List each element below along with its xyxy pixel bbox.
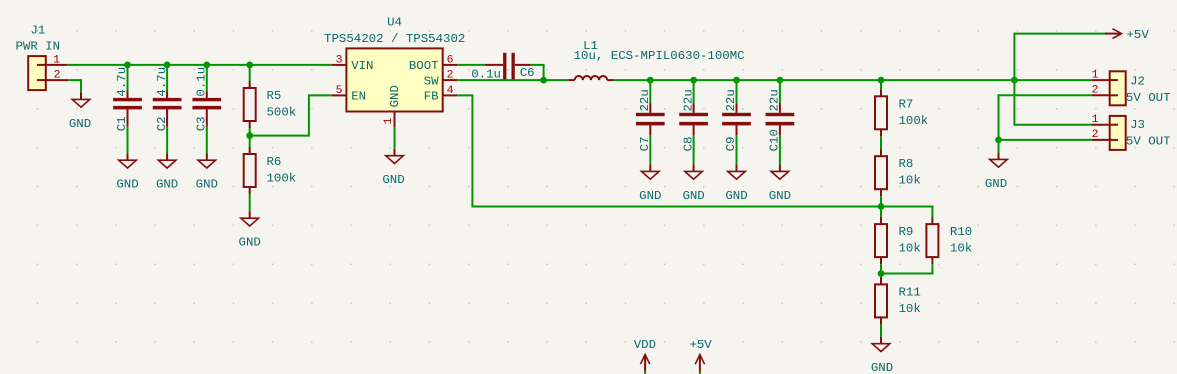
wire rail to C9 — [736, 80, 738, 113]
svg-text:GND: GND — [725, 189, 747, 203]
wire C3 to ground — [206, 109, 208, 153]
capacitor C7 22u — [636, 89, 665, 151]
svg-text:GND: GND — [196, 178, 218, 192]
ground GND at C9 — [725, 164, 747, 203]
wire rail to C8 — [693, 80, 695, 113]
svg-text:R11: R11 — [899, 285, 921, 299]
svg-text:VIN: VIN — [351, 59, 373, 73]
svg-text:22u: 22u — [681, 89, 695, 111]
resistor R11 10k — [875, 284, 921, 317]
svg-text:100k: 100k — [899, 114, 929, 128]
svg-text:2: 2 — [1092, 85, 1099, 97]
svg-text:1: 1 — [383, 118, 395, 125]
svg-text:R6: R6 — [267, 155, 282, 169]
wire R10 to bottom node — [881, 257, 932, 273]
wire to +5V symbol — [1014, 34, 1107, 81]
svg-text:4.7u: 4.7u — [115, 67, 129, 97]
resistor R5 500k — [244, 88, 297, 121]
ground GND at C3 — [196, 153, 218, 192]
junction output ground — [995, 137, 1002, 144]
wire C7 to ground — [649, 125, 651, 164]
svg-text:GND: GND — [116, 178, 138, 192]
svg-text:10u, ECS-MPIL0630-100MC: 10u, ECS-MPIL0630-100MC — [574, 49, 745, 63]
svg-text:1: 1 — [1092, 114, 1099, 126]
junction at R5 top — [246, 62, 253, 69]
wire junction to R6 — [249, 136, 251, 154]
junction at C9 top — [733, 77, 740, 84]
wire EN net — [250, 95, 332, 135]
capacitor C9 22u — [722, 89, 751, 151]
connector J2 5V OUT — [1092, 69, 1171, 105]
wire rail to C2 — [166, 65, 168, 98]
capacitor C3 0.1u — [192, 67, 221, 131]
wire R8 to FB node — [880, 189, 882, 206]
svg-text:10k: 10k — [899, 242, 921, 256]
wire rail to C1 — [127, 65, 129, 98]
wire J3 pin2 to ground node — [999, 139, 1093, 141]
wire +5V output rail — [614, 79, 1092, 81]
svg-text:22u: 22u — [768, 89, 782, 111]
svg-text:5V OUT: 5V OUT — [1126, 91, 1171, 105]
svg-text:GND: GND — [985, 177, 1007, 191]
svg-text:R9: R9 — [899, 225, 914, 239]
ground GND at R6 — [239, 211, 261, 250]
U4 pin 6 BOOT — [409, 54, 457, 73]
wire rail to R5 — [249, 65, 251, 88]
svg-text:6: 6 — [447, 54, 454, 66]
svg-text:22u: 22u — [724, 89, 738, 111]
junction at C10 top — [777, 77, 784, 84]
wire node to R11 — [880, 274, 882, 285]
junction R9/R11 — [878, 270, 885, 277]
ground GND at J1 — [69, 92, 91, 130]
wire rail to C7 — [649, 80, 651, 113]
wire VIN rail — [67, 64, 332, 66]
junction FB node — [878, 203, 885, 210]
connector J3 5V OUT — [1092, 114, 1171, 150]
U4 pin 4 FB — [424, 85, 457, 104]
svg-text:500k: 500k — [267, 106, 297, 120]
svg-text:10k: 10k — [950, 242, 972, 256]
svg-text:EN: EN — [351, 89, 366, 103]
op-amp U4 body — [346, 48, 442, 111]
svg-text:10k: 10k — [899, 302, 921, 316]
ground GND at C1 — [116, 153, 138, 192]
resistor R9 10k — [875, 224, 921, 257]
junction +5V tap — [1011, 77, 1018, 84]
svg-text:GND: GND — [388, 85, 402, 107]
ground GND at J2/J3 — [985, 140, 1007, 191]
capacitor C8 22u — [679, 89, 708, 151]
svg-text:VDD: VDD — [634, 338, 656, 352]
wire FB net — [457, 95, 932, 217]
capacitor C1 4.7u — [113, 67, 142, 131]
svg-text:GND: GND — [69, 117, 91, 131]
wire BOOT to C6 — [457, 64, 485, 66]
svg-text:GND: GND — [239, 236, 261, 250]
svg-text:2: 2 — [54, 70, 61, 82]
wire C2 to ground — [166, 109, 168, 153]
svg-text:FB: FB — [424, 89, 439, 103]
wire rail to C3 — [206, 65, 208, 98]
wire J1 pin2 to ground — [68, 80, 81, 92]
wire C6 to SW net — [531, 65, 544, 80]
svg-text:3: 3 — [336, 54, 343, 66]
svg-text:GND: GND — [639, 189, 661, 203]
svg-text:GND: GND — [769, 189, 791, 203]
ground GND at R11 — [871, 337, 893, 374]
svg-text:100k: 100k — [267, 172, 297, 186]
svg-text:+5V: +5V — [689, 338, 712, 352]
svg-text:10k: 10k — [899, 174, 921, 188]
connector J1 PWR IN — [16, 24, 69, 90]
svg-text:R8: R8 — [899, 157, 914, 171]
junction at C1 top — [124, 62, 131, 69]
junction R5/R6 — [246, 132, 253, 139]
svg-text:1: 1 — [1092, 69, 1099, 81]
wire C8 to ground — [693, 125, 695, 164]
ground GND at C7 — [639, 164, 661, 203]
wire R6 to ground — [249, 187, 251, 211]
svg-text:GND: GND — [156, 178, 178, 192]
junction at C3 top — [203, 62, 210, 69]
U4 reference label — [387, 15, 402, 29]
wire rail to R7 — [880, 80, 882, 96]
svg-text:C6: C6 — [520, 66, 535, 80]
ground GND at C8 — [682, 164, 704, 203]
svg-text:5: 5 — [336, 85, 343, 97]
wire rail to C10 — [779, 80, 781, 113]
power symbol +5V (bottom) — [689, 338, 712, 374]
junction at C7 top — [647, 77, 654, 84]
resistor R7 100k — [875, 96, 928, 129]
U4 pin 1 GND — [383, 85, 402, 127]
svg-text:0.1u: 0.1u — [195, 67, 209, 97]
U4 value label — [324, 32, 465, 46]
ground GND at U4 — [382, 127, 404, 187]
svg-text:GND: GND — [871, 361, 893, 374]
ground GND at C10 — [769, 164, 791, 203]
svg-text:R7: R7 — [899, 97, 914, 111]
svg-text:2: 2 — [447, 70, 454, 82]
svg-text:R5: R5 — [267, 89, 282, 103]
svg-text:SW: SW — [424, 74, 439, 88]
wire R5 to junction — [249, 121, 251, 136]
capacitor C2 4.7u — [153, 67, 182, 131]
svg-text:+5V: +5V — [1127, 28, 1150, 42]
U4 pin 3 VIN — [332, 54, 374, 73]
power symbol +5V — [1105, 28, 1149, 42]
svg-text:2: 2 — [1092, 129, 1099, 141]
svg-text:5V OUT: 5V OUT — [1126, 135, 1171, 149]
wire C9 to ground — [736, 125, 738, 164]
svg-text:J2: J2 — [1130, 75, 1145, 89]
svg-text:GND: GND — [382, 173, 404, 187]
wire C1 to ground — [127, 109, 129, 153]
inductor L1 10u ECS-MPIL0630-100MC — [568, 39, 744, 80]
svg-text:4.7u: 4.7u — [155, 67, 169, 97]
svg-text:4: 4 — [447, 85, 454, 97]
wire R7 to R8 — [880, 129, 882, 156]
svg-text:R10: R10 — [950, 225, 972, 239]
svg-text:22u: 22u — [638, 89, 652, 111]
wire SW to L1 — [457, 79, 568, 81]
svg-text:BOOT: BOOT — [409, 59, 439, 73]
resistor R8 10k — [875, 156, 921, 189]
svg-text:GND: GND — [682, 189, 704, 203]
wire R11 to ground — [880, 317, 882, 336]
svg-text:J1: J1 — [31, 24, 46, 38]
wire J2 pin2 to ground node — [999, 95, 1093, 140]
ground GND at C2 — [156, 153, 178, 192]
resistor R6 100k — [244, 154, 297, 187]
junction at R7 top — [878, 77, 885, 84]
svg-text:J3: J3 — [1130, 118, 1145, 132]
U4 pin 5 EN — [332, 85, 366, 104]
svg-text:1: 1 — [53, 54, 60, 66]
wire R9 to bottom node — [880, 257, 882, 273]
resistor R10 10k — [926, 217, 972, 257]
capacitor C6 0.1u — [471, 53, 534, 82]
capacitor C10 22u — [766, 89, 795, 151]
wire rail to J3 pin1 — [1014, 80, 1092, 125]
wire FB node to R9 — [880, 207, 882, 225]
junction C6/SW — [540, 77, 547, 84]
svg-text:U4: U4 — [387, 15, 402, 29]
wire C10 to ground — [779, 125, 781, 164]
junction at C2 top — [164, 62, 171, 69]
svg-text:PWR IN: PWR IN — [16, 40, 61, 54]
junction at C8 top — [690, 77, 697, 84]
U4 pin 2 SW — [424, 70, 457, 89]
power symbol VDD (bottom) — [634, 338, 656, 374]
svg-text:TPS54202 / TPS54302: TPS54202 / TPS54302 — [324, 32, 465, 46]
